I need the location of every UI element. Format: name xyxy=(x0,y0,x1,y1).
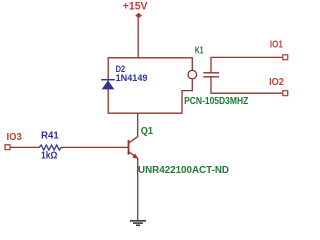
svg-text:IO1: IO1 xyxy=(270,40,283,51)
svg-text:IO2: IO2 xyxy=(269,77,284,88)
svg-text:PCN-105D3MHZ: PCN-105D3MHZ xyxy=(184,96,249,107)
relay contact bottom plate xyxy=(203,76,219,78)
diode D2 triangle xyxy=(102,80,115,89)
svg-text:Q1: Q1 xyxy=(141,126,154,137)
svg-text:IO3: IO3 xyxy=(7,132,23,143)
svg-text:+15V: +15V xyxy=(123,1,148,13)
power +15V symbol (diamond) xyxy=(135,13,142,19)
relay K1 coil box xyxy=(108,58,192,113)
svg-text:1N4149: 1N4149 xyxy=(116,73,148,84)
transistor Q1 emitter arrow xyxy=(132,154,138,159)
resistor R41 zigzag xyxy=(39,145,62,150)
transistor Q1 base bar xyxy=(128,140,130,155)
svg-text:UNR422100ACT-ND: UNR422100ACT-ND xyxy=(138,165,229,176)
relay K1 coil circle xyxy=(188,70,197,79)
transistor Q1 emitter diagonal xyxy=(129,152,138,159)
relay contact bottom lead xyxy=(210,77,212,93)
wire IO3 port to resistor R41 xyxy=(11,146,40,148)
wire Q1 emitter to ground xyxy=(137,158,139,221)
svg-text:K1: K1 xyxy=(195,46,204,57)
port square IO2 xyxy=(283,91,288,96)
port square IO1 xyxy=(283,55,288,60)
wire contact to IO2 xyxy=(210,92,282,94)
svg-text:R41: R41 xyxy=(41,131,59,142)
port square IO3 xyxy=(5,145,10,150)
relay contact top plate xyxy=(203,72,219,74)
wire +15V to relay coil box xyxy=(137,18,139,59)
svg-text:1kΩ: 1kΩ xyxy=(41,151,57,162)
wire contact to IO1 xyxy=(210,56,282,58)
wire resistor R41 to Q1 base xyxy=(63,146,129,148)
ground symbol xyxy=(130,221,146,226)
transistor Q1 collector diagonal xyxy=(129,136,138,143)
diode D2 cathode bar xyxy=(101,79,115,81)
wire relay box to Q1 collector xyxy=(137,113,139,136)
relay contact top lead xyxy=(210,57,212,72)
